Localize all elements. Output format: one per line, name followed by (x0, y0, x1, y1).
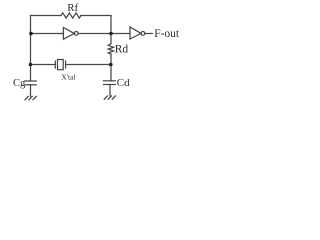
crystal X'tal body (58, 60, 64, 70)
wire left vertical (30, 16, 32, 82)
wire right vertical lower (110, 54, 112, 81)
resistor Rd (108, 44, 113, 55)
node junction at inverter1 output / Rd top (109, 32, 113, 36)
svg-text:Cg: Cg (13, 78, 26, 89)
ground for Cg (25, 96, 36, 99)
crystal X'tal left plate (54, 61, 56, 68)
wire top-right segment (81, 15, 111, 17)
wire Cd to ground (109, 85, 111, 96)
node junction at inverter1 input (29, 32, 33, 36)
wire Cg to ground (30, 85, 32, 96)
node junction at crystal left (29, 63, 33, 67)
wire crystal right (66, 64, 111, 66)
svg-text:Rf: Rf (67, 2, 78, 14)
op-amp U1 output bubble (74, 32, 78, 36)
op-amp U2 output bubble (141, 32, 145, 36)
op-amp U1 inverter triangle (63, 28, 74, 40)
svg-text:X'tal: X'tal (61, 72, 75, 81)
ground for Cd (104, 96, 115, 99)
wire crystal left (31, 64, 56, 66)
capacitor Cg bottom plate (25, 84, 36, 86)
crystal X'tal right plate (65, 61, 67, 68)
resistor Rf (61, 13, 81, 18)
capacitor Cd top plate (104, 80, 116, 82)
svg-text:Cd: Cd (117, 77, 130, 89)
op-amp U2 inverter triangle (130, 27, 141, 39)
svg-text:F-out: F-out (154, 28, 180, 40)
wire inverter1 input (31, 33, 64, 35)
wire right vertical upper (110, 16, 112, 44)
node junction at crystal right / Cd (109, 63, 113, 67)
wire top-left segment (31, 15, 62, 17)
capacitor Cg top plate (25, 80, 36, 82)
wire inverter2 output stub (145, 33, 153, 35)
capacitor Cd bottom plate (104, 84, 116, 86)
svg-text:Rd: Rd (115, 44, 129, 56)
wire inverter1 output to inverter2 input (78, 33, 130, 35)
